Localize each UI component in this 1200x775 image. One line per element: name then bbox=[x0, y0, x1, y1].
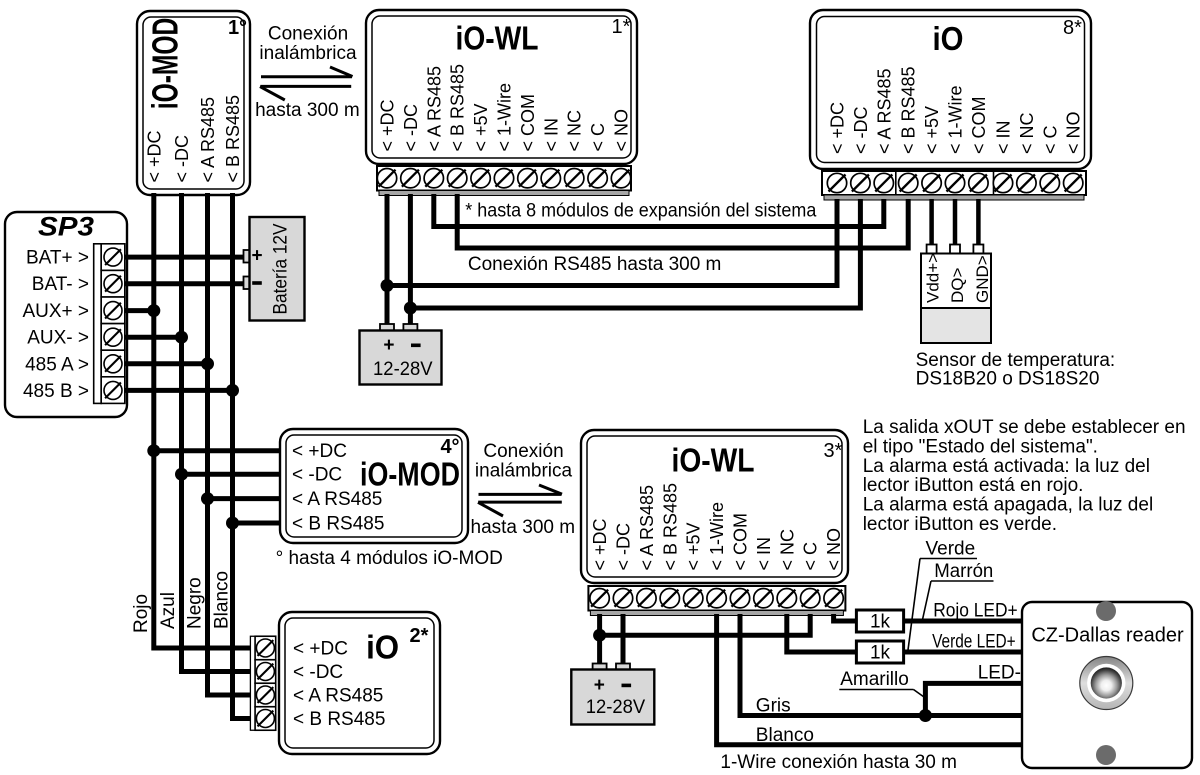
label 4° bbox=[440, 436, 459, 458]
svg-text:Blanco: Blanco bbox=[212, 571, 233, 629]
svg-text:inalámbrica: inalámbrica bbox=[259, 43, 357, 64]
SP3 terminal labels bbox=[22, 248, 89, 402]
wire A RS485 rail (iO-WL1 to iO) bbox=[434, 194, 884, 227]
svg-text:Conexión RS485 hasta 300 m: Conexión RS485 hasta 300 m bbox=[468, 254, 722, 275]
power supply 12-28V (bottom) bbox=[571, 664, 654, 725]
note text block xOUT bbox=[863, 417, 1186, 535]
module iO-WL 3* bbox=[581, 430, 848, 583]
label 1° bbox=[228, 17, 247, 39]
resistor R2 1k bbox=[856, 641, 903, 664]
junction Amarillo / Gris bbox=[919, 709, 932, 722]
svg-text:< NO: < NO bbox=[1064, 111, 1084, 154]
label Amarillo bbox=[839, 669, 925, 698]
svg-text:Gris: Gris bbox=[756, 696, 791, 717]
wire SP3 BAT- to battery bbox=[125, 281, 244, 286]
wire SP3 485A to A bus bbox=[125, 361, 208, 366]
wire -DC rail (iO-WL1 to iO) bbox=[410, 199, 860, 308]
svg-text:GND>: GND> bbox=[973, 255, 992, 303]
svg-text:< C: < C bbox=[1040, 125, 1060, 154]
svg-text:< NC: < NC bbox=[777, 529, 797, 571]
iO-WL 3* pin labels bbox=[590, 483, 844, 571]
temperature sensor DS18B20 bbox=[921, 245, 992, 344]
junction 485B / B bus bbox=[226, 384, 239, 397]
svg-text:< COM: < COM bbox=[731, 513, 751, 571]
svg-text:< B RS485: < B RS485 bbox=[448, 64, 468, 152]
wire iO pin to sensor 3 bbox=[976, 199, 981, 246]
svg-text:< 1-Wire: < 1-Wire bbox=[707, 502, 727, 571]
svg-text:< A RS485: < A RS485 bbox=[198, 97, 218, 183]
svg-text:La salida xOUT se debe estable: La salida xOUT se debe establecer en bbox=[863, 417, 1186, 438]
label Blanco bbox=[212, 571, 233, 629]
svg-text:+: + bbox=[594, 675, 605, 696]
power supply 12-28V (top) bbox=[360, 324, 442, 385]
junction bus / iO-MOD4 row 1 bbox=[147, 444, 160, 457]
svg-text:CZ-Dallas reader: CZ-Dallas reader bbox=[1031, 625, 1184, 647]
svg-text:La alarma está activada: la lu: La alarma está activada: la luz del bbox=[863, 456, 1150, 477]
label Conexión inalámbrica (mid) bbox=[475, 441, 573, 482]
junction AUX+ / +DC bbox=[147, 304, 160, 317]
wire bus +DC (Rojo) bbox=[154, 193, 252, 648]
wire bus to iO-MOD 4 -DC bbox=[182, 472, 282, 477]
label hasta 300 m (top) bbox=[255, 100, 360, 121]
svg-text:iO-WL: iO-WL bbox=[672, 442, 755, 479]
reader screw top bbox=[1096, 601, 1116, 621]
svg-text:< COM: < COM bbox=[969, 96, 989, 154]
label ° hasta 4 módulos iO-MOD bbox=[276, 548, 503, 569]
svg-text:Rojo: Rojo bbox=[131, 594, 152, 633]
wire NO to resistor R1 bbox=[834, 614, 857, 621]
svg-text:< NC: < NC bbox=[565, 110, 585, 152]
junction +DC rail bbox=[381, 279, 394, 292]
CZ-Dallas reader box bbox=[1022, 602, 1192, 768]
label iO (module title) bbox=[933, 20, 964, 57]
wire bus A RS485 (Negro) bbox=[208, 193, 252, 695]
svg-text:< B RS485: < B RS485 bbox=[293, 709, 385, 730]
svg-text:< NO: < NO bbox=[612, 109, 632, 152]
svg-text:< A RS485: < A RS485 bbox=[874, 68, 894, 154]
wire SP3 485B to B bus bbox=[125, 388, 233, 393]
svg-text:DS18B20 o DS18S20: DS18B20 o DS18S20 bbox=[916, 369, 1100, 390]
module iO-MOD 1° bbox=[137, 11, 250, 195]
iButton contact bbox=[1080, 657, 1133, 710]
svg-text:1k: 1k bbox=[870, 612, 891, 633]
label 1-Wire conexión hasta 30 m bbox=[720, 752, 957, 773]
svg-text:iO-WL: iO-WL bbox=[456, 20, 539, 57]
junction bus / iO-MOD4 row 2 bbox=[175, 468, 188, 481]
wire iO-WL1 -DC down to supply bbox=[408, 194, 413, 325]
svg-text:< C: < C bbox=[588, 123, 608, 152]
label Rojo bbox=[131, 594, 152, 633]
svg-text:< A RS485: < A RS485 bbox=[637, 485, 657, 571]
module iO 2* bbox=[279, 612, 440, 754]
label Conexión RS485 hasta 300 m bbox=[468, 254, 722, 275]
wire SP3 AUX- to -DC bus bbox=[125, 335, 182, 340]
svg-text:< +DC: < +DC bbox=[378, 99, 398, 151]
svg-text:Azul: Azul bbox=[158, 592, 179, 629]
svg-text:° hasta 4 módulos iO-MOD: ° hasta 4 módulos iO-MOD bbox=[276, 548, 503, 569]
arrow wireless link mid-left bbox=[478, 502, 562, 516]
svg-text:La alarma está apagada, la luz: La alarma está apagada, la luz del bbox=[863, 495, 1153, 516]
svg-text:< -DC: < -DC bbox=[851, 106, 871, 154]
SP3 terminal block bbox=[94, 244, 125, 404]
svg-text:iO-MOD: iO-MOD bbox=[145, 18, 186, 110]
svg-text:Conexión: Conexión bbox=[483, 441, 563, 462]
svg-text:hasta 300 m: hasta 300 m bbox=[471, 517, 576, 538]
svg-text:hasta 300 m: hasta 300 m bbox=[255, 100, 360, 121]
label 2* bbox=[410, 625, 429, 647]
svg-text:< +DC: < +DC bbox=[590, 518, 610, 570]
svg-text:BAT+ >: BAT+ > bbox=[26, 248, 89, 269]
svg-text:< B RS485: < B RS485 bbox=[223, 95, 243, 183]
label Conexión inalámbrica (top) bbox=[259, 24, 357, 65]
iO-WL 1* pin labels bbox=[378, 64, 632, 152]
label iO-MOD (module 1 title) bbox=[145, 18, 186, 110]
svg-text:Verde LED+: Verde LED+ bbox=[932, 632, 1016, 653]
module iO-WL 1* bbox=[366, 10, 637, 164]
svg-text:12-28V: 12-28V bbox=[373, 359, 433, 380]
svg-text:BAT- >: BAT- > bbox=[32, 274, 89, 295]
module iO-MOD 4° bbox=[280, 429, 468, 543]
label Sensor de temperatura bbox=[916, 350, 1116, 390]
svg-text:< -DC: < -DC bbox=[172, 135, 192, 183]
wire bus -DC (Azul) bbox=[182, 193, 252, 672]
svg-text:Amarillo: Amarillo bbox=[840, 669, 909, 690]
svg-text:iO-MOD: iO-MOD bbox=[360, 456, 460, 493]
wire LED- (Amarillo) bbox=[925, 683, 1023, 715]
svg-text:< 1-Wire: < 1-Wire bbox=[495, 83, 515, 152]
wire B RS485 rail (iO-WL1 to iO) bbox=[457, 194, 908, 248]
svg-text:< B RS485: < B RS485 bbox=[660, 483, 680, 571]
reader screw bottom bbox=[1096, 745, 1116, 765]
svg-text:+: + bbox=[383, 335, 394, 356]
svg-text:< A RS485: < A RS485 bbox=[292, 489, 382, 510]
svg-text:< B RS485: < B RS485 bbox=[292, 514, 384, 535]
svg-text:< +5V: < +5V bbox=[471, 103, 491, 151]
label Verde LED+ bbox=[932, 632, 1016, 653]
iO-WL 3* terminal strip bbox=[588, 586, 845, 616]
svg-text:< +DC: < +DC bbox=[144, 130, 164, 182]
svg-text:< +DC: < +DC bbox=[828, 102, 848, 154]
svg-text:AUX- >: AUX- > bbox=[27, 328, 89, 349]
wire NC to resistor R2 bbox=[787, 614, 857, 652]
svg-text:iO: iO bbox=[366, 629, 399, 666]
svg-text:8*: 8* bbox=[1063, 17, 1082, 39]
wire bus to iO-MOD 4 +DC bbox=[154, 448, 281, 453]
junction bus / iO-MOD4 row 3 bbox=[201, 492, 214, 505]
svg-text:< IN: < IN bbox=[541, 118, 561, 152]
svg-text:Vdd+>: Vdd+> bbox=[923, 253, 942, 303]
wire +DC to C rail bbox=[600, 614, 811, 635]
label iO-WL (module title) bbox=[456, 20, 539, 57]
wire iO pin to sensor 2 bbox=[953, 199, 958, 246]
wire 1-Wire (Blanco) to reader bbox=[717, 614, 1023, 745]
svg-text:3*: 3* bbox=[824, 440, 843, 462]
svg-text:1k: 1k bbox=[870, 643, 891, 664]
label 8* bbox=[1063, 17, 1082, 39]
svg-text:< A RS485: < A RS485 bbox=[293, 686, 383, 707]
iO-MOD 4 pin labels bbox=[292, 441, 384, 534]
label 3* bbox=[824, 440, 843, 462]
svg-text:< -DC: < -DC bbox=[293, 662, 343, 683]
label Azul bbox=[158, 592, 179, 629]
svg-text:* hasta 8 módulos de expansión: * hasta 8 módulos de expansión del siste… bbox=[465, 201, 816, 222]
svg-text:< C: < C bbox=[801, 542, 821, 571]
svg-text:lector iButton está en rojo.: lector iButton está en rojo. bbox=[863, 475, 1084, 496]
svg-text:Marrón: Marrón bbox=[934, 561, 993, 582]
svg-text:485 B >: 485 B > bbox=[23, 381, 89, 402]
svg-text:iO: iO bbox=[933, 20, 964, 57]
svg-text:SP3: SP3 bbox=[38, 212, 94, 242]
svg-text:< +DC: < +DC bbox=[293, 639, 348, 660]
svg-text:Rojo LED+: Rojo LED+ bbox=[933, 601, 1018, 622]
arrow wireless link top-left bbox=[260, 86, 351, 100]
svg-text:Batería 12V: Batería 12V bbox=[271, 223, 292, 314]
svg-text:< +5V: < +5V bbox=[922, 106, 942, 154]
label Gris bbox=[756, 696, 791, 717]
svg-text:< B RS485: < B RS485 bbox=[899, 66, 919, 154]
svg-text:< A RS485: < A RS485 bbox=[424, 66, 444, 152]
label * hasta 8 módulos bbox=[465, 201, 816, 222]
junction bus / iO-MOD4 row 4 bbox=[226, 517, 239, 530]
label 1* bbox=[612, 16, 631, 38]
svg-text:el tipo "Estado del sistema".: el tipo "Estado del sistema". bbox=[863, 436, 1098, 457]
junction AUX- / -DC bbox=[175, 331, 188, 344]
svg-text:< -DC: < -DC bbox=[614, 523, 634, 571]
wire iO pin to sensor 1 bbox=[929, 199, 934, 246]
svg-text:inalámbrica: inalámbrica bbox=[475, 461, 573, 482]
wire R1 to reader (Rojo LED+) bbox=[904, 619, 1023, 624]
svg-text:< +DC: < +DC bbox=[292, 441, 347, 462]
svg-text:4°: 4° bbox=[440, 436, 459, 458]
wire COM (Gris) to reader bbox=[740, 614, 1023, 716]
wire bus B RS485 (Blanco) bbox=[233, 193, 252, 719]
module SP3 control panel bbox=[5, 212, 127, 417]
label Marrón bbox=[922, 561, 993, 621]
arrow wireless link top-right bbox=[261, 67, 353, 77]
wire iO-WL3 -DC down to supply2 bbox=[621, 614, 626, 665]
svg-text:DQ>: DQ> bbox=[948, 268, 967, 304]
iO-MOD 1 pin labels +DC -DC A RS485 B RS485 bbox=[144, 95, 243, 183]
svg-text:lector iButton es verde.: lector iButton es verde. bbox=[863, 514, 1057, 535]
svg-text:Verde: Verde bbox=[926, 539, 976, 560]
label hasta 300 m (mid) bbox=[471, 517, 576, 538]
resistor R1 1k bbox=[856, 610, 903, 633]
svg-text:AUX+ >: AUX+ > bbox=[22, 301, 89, 322]
svg-text:Negro: Negro bbox=[185, 577, 206, 629]
label Negro bbox=[185, 577, 206, 629]
wire iO-WL3 +DC down to supply2 bbox=[597, 614, 602, 665]
svg-text:< -DC: < -DC bbox=[401, 104, 421, 152]
svg-text:1-Wire conexión hasta 30 m: 1-Wire conexión hasta 30 m bbox=[720, 752, 957, 773]
label Rojo LED+ bbox=[933, 601, 1018, 622]
svg-text:12-28V: 12-28V bbox=[586, 697, 646, 718]
iO 8* terminal strip bbox=[822, 171, 1086, 200]
svg-text:LED-: LED- bbox=[978, 663, 1021, 684]
iO 2* terminal strip bbox=[250, 636, 275, 730]
wire bus to iO-MOD 4 A RS485 bbox=[208, 496, 282, 501]
svg-text:< IN: < IN bbox=[754, 537, 774, 571]
svg-text:2*: 2* bbox=[410, 625, 429, 647]
svg-text:+: + bbox=[251, 246, 262, 267]
battery 12V bbox=[244, 217, 305, 321]
svg-text:< NO: < NO bbox=[824, 528, 844, 571]
svg-text:< +5V: < +5V bbox=[684, 522, 704, 570]
wire SP3 BAT+ to battery bbox=[125, 255, 244, 260]
svg-text:< NC: < NC bbox=[1017, 112, 1037, 154]
arrow wireless link mid-right bbox=[479, 485, 563, 494]
svg-text:1°: 1° bbox=[228, 17, 247, 39]
label iO-WL (module 3 title) bbox=[672, 442, 755, 479]
svg-text:< 1-Wire: < 1-Wire bbox=[946, 85, 966, 154]
svg-text:< IN: < IN bbox=[994, 120, 1014, 154]
svg-text:Blanco: Blanco bbox=[756, 725, 814, 746]
wire R2 to reader (Verde LED+) bbox=[904, 650, 1023, 655]
label SP3 bbox=[38, 212, 94, 242]
svg-text:Conexión: Conexión bbox=[268, 24, 348, 45]
junction -DC rail bbox=[404, 302, 417, 315]
label Verde bbox=[908, 539, 977, 651]
module iO 8* bbox=[810, 10, 1091, 169]
iO 8* pin labels bbox=[828, 66, 1084, 154]
svg-text:1*: 1* bbox=[612, 16, 631, 38]
label LED- bbox=[978, 663, 1021, 684]
label iO-MOD (module 4 title) bbox=[360, 456, 460, 493]
iO-WL 1* terminal strip bbox=[377, 166, 631, 196]
wire bus to iO-MOD 4 B RS485 bbox=[233, 521, 282, 526]
label iO (module 2 title) bbox=[366, 629, 399, 666]
svg-text:< COM: < COM bbox=[518, 94, 538, 152]
label Blanco bbox=[756, 725, 814, 746]
wire iO-WL1 +DC down to supply bbox=[385, 194, 390, 325]
iO 2* pin labels bbox=[293, 639, 385, 731]
svg-text:485 A >: 485 A > bbox=[25, 354, 89, 375]
junction +DC supply2 bbox=[593, 629, 606, 642]
wire +DC rail (iO-WL1 to iO) bbox=[387, 199, 837, 286]
wire SP3 AUX+ to +DC bus bbox=[125, 308, 154, 313]
junction 485A / A bus bbox=[201, 357, 214, 370]
svg-text:< -DC: < -DC bbox=[292, 465, 342, 486]
